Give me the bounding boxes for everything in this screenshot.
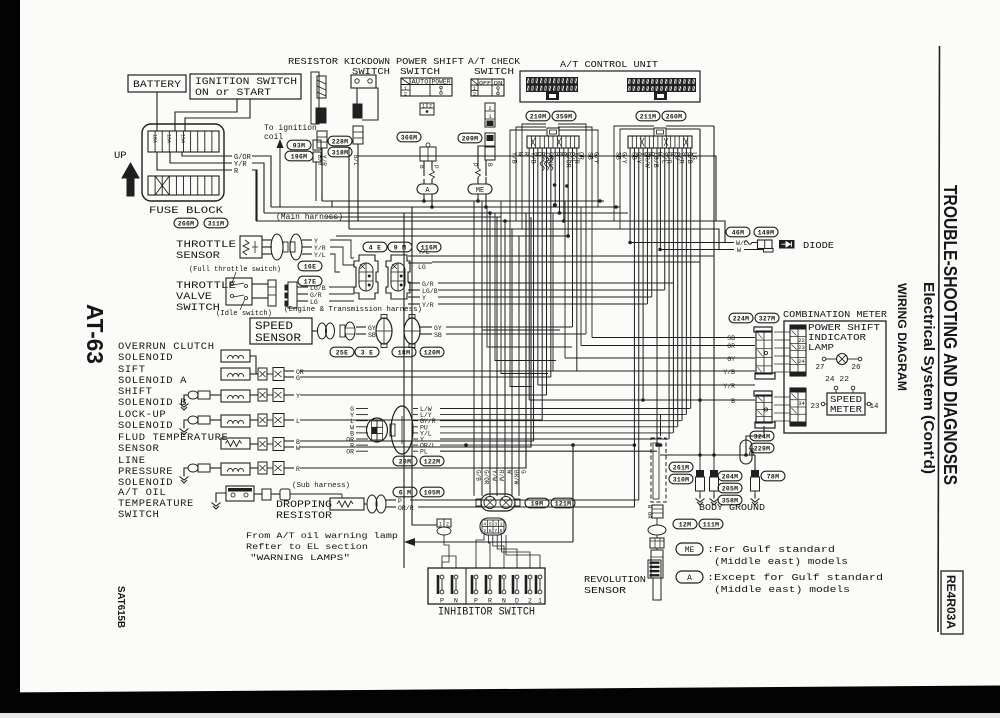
svg-text:120M: 120M [424,350,441,357]
combination meter box [784,321,886,433]
wire check P with resistor [478,146,485,160]
svg-text:BR/W: BR/W [513,470,520,485]
svg-text:4 E: 4 E [369,245,381,252]
svg-text:P: P [440,598,444,605]
legend A capsule [676,571,703,583]
svg-text:Y/R: Y/R [314,245,326,252]
svg-text:DIODE: DIODE [803,241,834,251]
svg-text:Y/B: Y/B [723,369,735,376]
junction dots comb area [553,183,557,187]
inhibitor wires down to connector [473,488,475,496]
shift solenoid B coil [221,390,250,402]
throttle valve switch body [226,278,252,305]
combination meter line Y/R [538,384,737,386]
diode feed W [660,249,734,251]
svg-text:12M: 12M [679,522,691,529]
connector codes 19M 121M [525,498,549,508]
inhibitor small connector 12 [437,519,451,527]
wire battery to fuse block [156,92,158,131]
speed meter pins 23 14 [821,402,825,406]
control unit connector strip right [627,78,696,92]
svg-text:(Middle east) models: (Middle east) models [714,585,850,595]
svg-text:SWITCH: SWITCH [118,509,159,521]
line pressure solenoid coil [221,463,250,475]
svg-text:W: W [737,247,741,254]
svg-text:AUTO: AUTO [412,79,429,86]
svg-text:Y/L: Y/L [314,252,326,259]
diode connector [758,240,773,249]
svg-text:G/R: G/R [310,292,322,299]
svg-text:R: R [488,598,492,605]
svg-text:149M: 149M [758,230,775,237]
fuse block outline [142,124,224,201]
svg-text:Y: Y [314,238,318,245]
ME capsule body ground [745,440,747,455]
svg-text:2: 2 [528,598,532,605]
svg-text:GY: GY [368,325,376,332]
A/T oil temp ground [216,493,226,498]
svg-text:204M: 204M [722,474,739,481]
wire revolution sensor [656,548,658,550]
throttle sensor connector oval pair [271,234,283,260]
power shift harness connector [420,147,436,161]
connector codes 25E 3E 18M 120M [330,347,354,357]
svg-text:2: 2 [404,92,407,98]
svg-text:ON: ON [494,79,504,86]
svg-text:OR: OR [646,512,653,519]
svg-text:AT-63: AT-63 [82,304,108,364]
throttle sensor wires to connector [262,239,272,241]
svg-text:6: 6 [500,528,503,534]
wire kickdown down 2 [348,148,350,229]
shift solenoid B ground connector [188,391,198,399]
revolution sensor capsule [648,525,666,535]
svg-text:Y: Y [296,393,300,400]
kickdown connector [353,104,362,118]
svg-text:209M: 209M [462,136,479,143]
svg-text:PL: PL [420,449,428,456]
connector codes 266M 311M [174,218,198,228]
resistor lower connector [316,108,326,123]
svg-text:14: 14 [869,403,879,411]
body ground element 3 [754,455,756,470]
svg-text:6 M: 6 M [399,490,411,497]
svg-text:Y/B: Y/B [511,152,518,164]
solenoid PL tail [440,450,657,452]
wire A/T oil temp [290,493,342,495]
svg-text:GY: GY [727,356,735,363]
svg-text:260M: 260M [666,114,683,121]
svg-text:L: L [296,418,300,425]
to ignition coil arrow [279,146,281,207]
svg-text:ME: ME [685,546,695,555]
connector codes 324M 229M [750,431,774,441]
svg-text:Electrical System (Cont'd): Electrical System (Cont'd) [920,282,936,474]
harness connector comb right [654,128,666,136]
lock-up solenoid ground connector [188,416,198,424]
svg-text:1: 1 [538,598,542,605]
svg-text:LG/B: LG/B [422,288,438,295]
svg-text:2: 2 [473,92,476,98]
ref code RE4R03A box [941,571,963,634]
wire G/OR from fuse block [182,152,232,156]
svg-text:B: B [418,165,425,169]
svg-text:7: 7 [494,528,497,534]
svg-text:D: D [515,598,519,605]
svg-text:RESISTOR: RESISTOR [276,510,333,522]
svg-text:B: B [731,398,735,405]
solenoid right bundle labels [413,408,418,410]
svg-text:93M: 93M [293,143,305,150]
svg-text:20M: 20M [399,459,411,466]
svg-text:REVOLUTION: REVOLUTION [584,574,646,585]
connector A capsule [417,184,438,194]
throttle circuit wires right [408,282,420,284]
throttle circuit wires Y/L LG [408,255,432,257]
diode feed W/L [630,242,734,244]
wire Y/R from fuse block [170,152,232,163]
svg-text:G/R: G/R [422,281,434,288]
comb left wire curtain upper [528,148,530,176]
bus line 3 [264,212,628,214]
svg-text:210M: 210M [530,114,547,121]
svg-text:1: 1 [422,104,425,110]
sub harness connector block 2 [391,406,413,454]
meter inner strip lower [790,388,806,393]
wire ME to bus [477,177,479,184]
wire kickdown down [357,144,359,221]
svg-text:G/Y: G/Y [621,152,628,164]
connector codes 12M 111M [673,519,697,529]
dropping resistor body [330,498,364,510]
speed sensor connector [312,330,318,332]
external meter connector strip lower [754,391,772,396]
connector codes 20M 122M [393,456,417,466]
shift B connector pair [258,389,267,401]
connector codes 210M 359M [526,111,550,121]
svg-text:Y: Y [422,295,426,302]
power shift switch table [401,78,452,96]
connector codes 4E 9M 116M [363,242,387,252]
wire 93M connector down [315,162,317,201]
svg-text:LG: LG [690,152,697,160]
svg-text:WIRING DIAGRAM: WIRING DIAGRAM [895,283,909,391]
wire ignition switch to fuse block 2 [185,99,250,131]
svg-text:R: R [296,466,300,473]
bus line 6 [336,235,568,237]
svg-text:24 22: 24 22 [825,376,849,384]
svg-text:ON or START: ON or START [195,87,271,99]
diode D1 [779,240,795,249]
svg-text:4: 4 [483,522,486,528]
svg-text:From A/T oil warning lamp: From A/T oil warning lamp [246,531,398,541]
svg-text:3: 3 [494,522,497,528]
lock-up solenoid coil [221,415,250,427]
svg-text:OR/R: OR/R [398,505,414,512]
svg-text:FUSE BLOCK: FUSE BLOCK [149,205,224,217]
svg-text:OR: OR [727,343,735,350]
wire Y/R run [252,163,264,213]
throttle valve wire labels [297,286,308,288]
svg-text:46M: 46M [732,230,744,237]
svg-text:RE4R03A: RE4R03A [944,575,958,629]
body ground element 2 [713,455,715,470]
svg-text:(Engine & Transmission harness: (Engine & Transmission harness) [284,306,422,314]
wire kickdown to control area [358,156,716,221]
svg-text:16E: 16E [304,264,316,271]
svg-text:(Idle switch): (Idle switch) [216,310,272,318]
svg-text:B: B [486,163,493,167]
svg-text:Y/L: Y/L [418,249,430,256]
line pressure connector pair [258,462,267,474]
fluid temperature sensor body [221,438,250,449]
connector code 209M [458,133,482,143]
combination meter line Y/B [553,370,737,372]
throttle sensor wire labels [302,239,312,241]
svg-text:15A: 15A [166,134,172,143]
combination meter line OR [581,345,737,347]
A/T control unit box [520,71,700,102]
svg-text:34: 34 [798,400,805,407]
junction dots mesh [633,443,637,447]
revolution sensor connector 2 [650,538,664,548]
svg-text:SOLENOID: SOLENOID [118,420,173,432]
svg-text:SB: SB [368,332,376,339]
body ground bus [660,454,755,456]
connector code 16E [298,261,322,271]
svg-text::Except for Gulf standard: :Except for Gulf standard [707,573,883,583]
svg-text:SENSOR: SENSOR [118,443,160,455]
bus line 4 W/L [255,170,257,221]
inhibitor internal wires [442,556,456,568]
svg-text:R: R [523,152,530,156]
lock-up connector pair [258,414,267,426]
svg-text:228M: 228M [332,139,349,146]
svg-text:"WARNING LAMPS": "WARNING LAMPS" [250,553,350,563]
svg-text:78M: 78M [767,474,779,481]
inhibitor feed wires [476,535,484,568]
svg-text:SWITCH: SWITCH [176,302,220,314]
svg-text:SB: SB [434,332,442,339]
round connector 9M [354,255,378,299]
svg-text:SWITCH: SWITCH [474,66,514,77]
inhibitor switch box [428,568,545,604]
svg-text:A/T CONTROL UNIT: A/T CONTROL UNIT [560,59,658,70]
wire meter ground down [746,426,764,440]
svg-text:INHIBITOR SWITCH: INHIBITOR SWITCH [438,607,535,619]
connector codes 93M 196M [287,140,311,150]
solenoid bundle wires to connector [356,408,368,410]
svg-text:SOLENOID B: SOLENOID B [118,397,187,409]
dropping resistor connector [367,495,377,513]
svg-text:22: 22 [798,337,805,344]
bus line 5 W [349,229,719,250]
throttle sensor line Y/R to harness connector [330,247,354,265]
resistor R1 body [311,72,319,124]
revolution sensor connector [652,505,663,518]
svg-text:2: 2 [483,528,486,534]
connector codes 6M 105M [393,487,417,497]
svg-text:B/Y: B/Y [316,155,323,166]
wire R run [252,170,257,221]
svg-text:26: 26 [851,364,861,372]
svg-text:327M: 327M [759,316,776,323]
speed meter box [827,393,865,415]
svg-text:196M: 196M [291,154,308,161]
throttle sensor line Y/L to harness connector [330,254,340,272]
svg-text:19M: 19M [531,501,543,508]
junction dot OR/L [464,443,468,447]
svg-text:3 E: 3 E [361,350,373,357]
svg-text:111M: 111M [703,522,720,529]
wire slack marks [540,157,544,171]
svg-text:105M: 105M [424,490,441,497]
wire power shift P with resistor [431,161,433,170]
A/T oil temp connector 2 [280,489,290,500]
legend ME capsule [676,543,703,555]
line pressure solenoid ground connector [188,464,198,472]
A/T oil temp connector [262,489,271,500]
wire to warning lamp region [403,213,405,568]
wire kickdown left pin [356,88,358,104]
connector codes 224M 327M [729,313,753,323]
connector code 366M [397,132,421,142]
wire R from fuse block [157,152,232,170]
inhibitor connector grid [480,518,506,535]
sub harness connector block [367,418,388,442]
svg-text:SENSOR: SENSOR [176,250,221,262]
comb left cell wire destinations [528,176,530,400]
svg-text:Y/R: Y/R [723,383,735,390]
revolution sensor feed dashed [651,438,666,502]
svg-text:15A: 15A [152,134,158,143]
warning lamp arrow [404,538,415,546]
svg-text:27: 27 [815,364,824,372]
speed sensor wire labels GY SB [356,326,366,328]
svg-text:359M: 359M [556,114,573,121]
svg-text:ME: ME [476,187,484,195]
svg-text:9 M: 9 M [394,245,406,252]
svg-text:2: 2 [488,106,491,112]
svg-text:1: 1 [488,114,491,120]
svg-text:23: 23 [798,344,805,351]
svg-text:Y/R: Y/R [422,302,434,309]
svg-text:SENSOR: SENSOR [255,333,301,345]
connector stub 93M [313,140,321,150]
wire power shift B [423,161,425,176]
svg-text:P: P [432,165,439,169]
svg-text:P: P [471,163,478,167]
svg-text:(Middle east) models: (Middle east) models [714,557,848,567]
ignition switch box [190,74,301,99]
svg-text:P: P [474,598,478,605]
combination meter line SB [592,337,737,339]
throttle sensor line Y to harness connector [330,240,354,258]
connector ME capsule [468,184,492,194]
throttle valve harness connector [288,282,297,308]
svg-text:TROUBLE-SHOOTING AND DIAGNOSES: TROUBLE-SHOOTING AND DIAGNOSES [940,185,960,485]
svg-text:121M: 121M [555,501,572,508]
svg-text:SB: SB [727,335,735,342]
svg-text:(Full throttle switch): (Full throttle switch) [189,266,281,274]
svg-text:LG: LG [310,299,318,306]
connector code 17E [298,276,322,286]
connector codes 261M 310M [669,462,693,472]
dropping resistor wires [386,499,396,501]
svg-text:P: P [398,498,402,505]
svg-text:N: N [454,598,458,605]
svg-text:15A: 15A [180,134,186,143]
svg-text:261M: 261M [673,465,690,472]
svg-text:LG/B: LG/B [310,285,326,292]
svg-text:N: N [502,598,506,605]
svg-text:211M: 211M [640,114,657,121]
svg-text:229M: 229M [754,446,771,453]
meter inner strip upper [790,325,806,330]
external meter connector strip upper [754,327,772,332]
svg-text:SOLENOID: SOLENOID [118,352,173,364]
inhibitor round connector [481,494,515,511]
svg-text:18M: 18M [398,350,410,357]
svg-text:OFF: OFF [479,79,492,86]
wire bus vertical joins [321,195,323,201]
svg-text:G: G [296,375,300,382]
A/T check switch table [471,79,504,96]
inhibitor bundle fed from buses [473,201,475,494]
svg-text:W: W [296,445,300,452]
A/T check harness connector [485,133,495,146]
wire resistor down [321,148,323,201]
svg-text:W: W [506,470,513,474]
svg-text:OR: OR [346,449,354,456]
svg-text:310M: 310M [673,477,690,484]
wire G/OR run [252,156,271,207]
svg-text:LG: LG [418,264,426,271]
svg-text:BODY GROUND: BODY GROUND [699,502,765,513]
revolution sensor second feed [660,415,662,436]
svg-text:366M: 366M [401,135,418,142]
svg-text:LAMP: LAMP [808,342,834,353]
meter strip link wires [774,331,790,333]
svg-text:UP: UP [114,150,127,162]
svg-text:A: A [687,574,692,583]
svg-text:COMBINATION METER: COMBINATION METER [783,309,887,320]
svg-text:266M: 266M [178,221,195,228]
inhibitor switch contacts [440,575,444,579]
svg-text:G/OR: G/OR [483,470,490,485]
A/T check connector stack [485,103,495,127]
svg-text:2: 2 [429,104,432,110]
bus line 1 [322,200,604,202]
overrun clutch solenoid coil [221,350,250,362]
fuse row lower [148,176,219,195]
wire check B [485,160,487,176]
indicator lamp bulb [837,354,848,365]
inhibitor box divider [465,568,467,604]
harness connector comb left [547,128,559,136]
connector codes 46M 149M [726,227,750,237]
resistor harness connector [317,131,327,148]
connector code 78M [761,471,785,481]
svg-text:B/L: B/L [352,155,359,166]
svg-text:To ignition: To ignition [264,124,317,133]
svg-text:8: 8 [489,528,492,534]
throttle sensor body [240,236,262,258]
comb right wrap wires [666,125,714,127]
combination meter line B [529,399,737,401]
svg-text:SENSOR: SENSOR [584,585,626,596]
connector codes 211M 260M [636,111,660,121]
